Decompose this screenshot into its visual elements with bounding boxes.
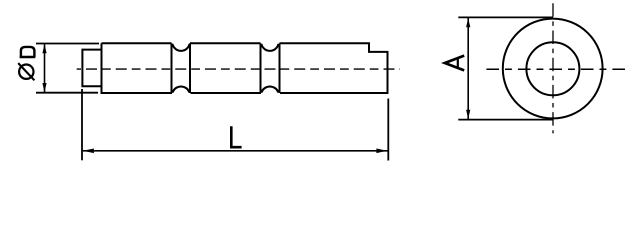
shaft centerline (side view) <box>77 68 400 70</box>
groove 1 top fillet arc <box>173 44 190 51</box>
dimension oD: bottom arrowhead <box>42 83 46 92</box>
dimension oD: label "&#8960;D" (rotated): diameter symbol ring <box>19 65 33 79</box>
groove 1 bottom fillet arc <box>173 86 190 92</box>
dimension L: left arrowhead <box>83 149 94 154</box>
dimension A: bottom extension line <box>458 119 553 121</box>
dimension L: right arrowhead <box>376 149 387 154</box>
dimension oD: label letter D (rotated 90 ccw) <box>20 47 36 57</box>
dimension A: label letter A (rotated 90 ccw) legs <box>445 56 464 71</box>
end view: inner circle (bore) <box>526 42 579 95</box>
shaft body outline <box>102 43 388 93</box>
shaft left stub <box>82 50 100 87</box>
dimension L: right extension line <box>387 99 389 161</box>
end view: vertical centerline <box>552 3 554 133</box>
dimension A: top arrowhead <box>466 18 470 27</box>
dimension L: left extension line <box>81 89 83 160</box>
dimension oD: top arrowhead <box>42 44 46 53</box>
end view: horizontal centerline <box>486 68 625 70</box>
dimension A: label letter A crossbar <box>457 58 459 67</box>
groove 2 top fillet arc <box>261 44 278 51</box>
dimension L: dimension line <box>83 150 388 152</box>
groove 2 bottom fillet arc <box>261 86 278 92</box>
dimension A: dimension line <box>467 18 469 119</box>
dimension A: bottom arrowhead <box>466 110 470 119</box>
dimension oD: label diameter symbol slash <box>18 63 34 80</box>
groove 2 left wall <box>260 43 262 93</box>
dimension oD: top extension line <box>36 43 99 45</box>
groove 1 left wall <box>171 43 173 93</box>
end view: outer circle <box>503 19 603 119</box>
dimension oD: bottom extension line <box>36 92 98 94</box>
dimension A: top extension line <box>458 16 553 18</box>
dimension L: label letter L <box>231 126 241 147</box>
groove 1 right wall <box>189 43 191 93</box>
groove 2 right wall <box>279 43 281 93</box>
dimension oD: dimension line <box>44 44 46 92</box>
